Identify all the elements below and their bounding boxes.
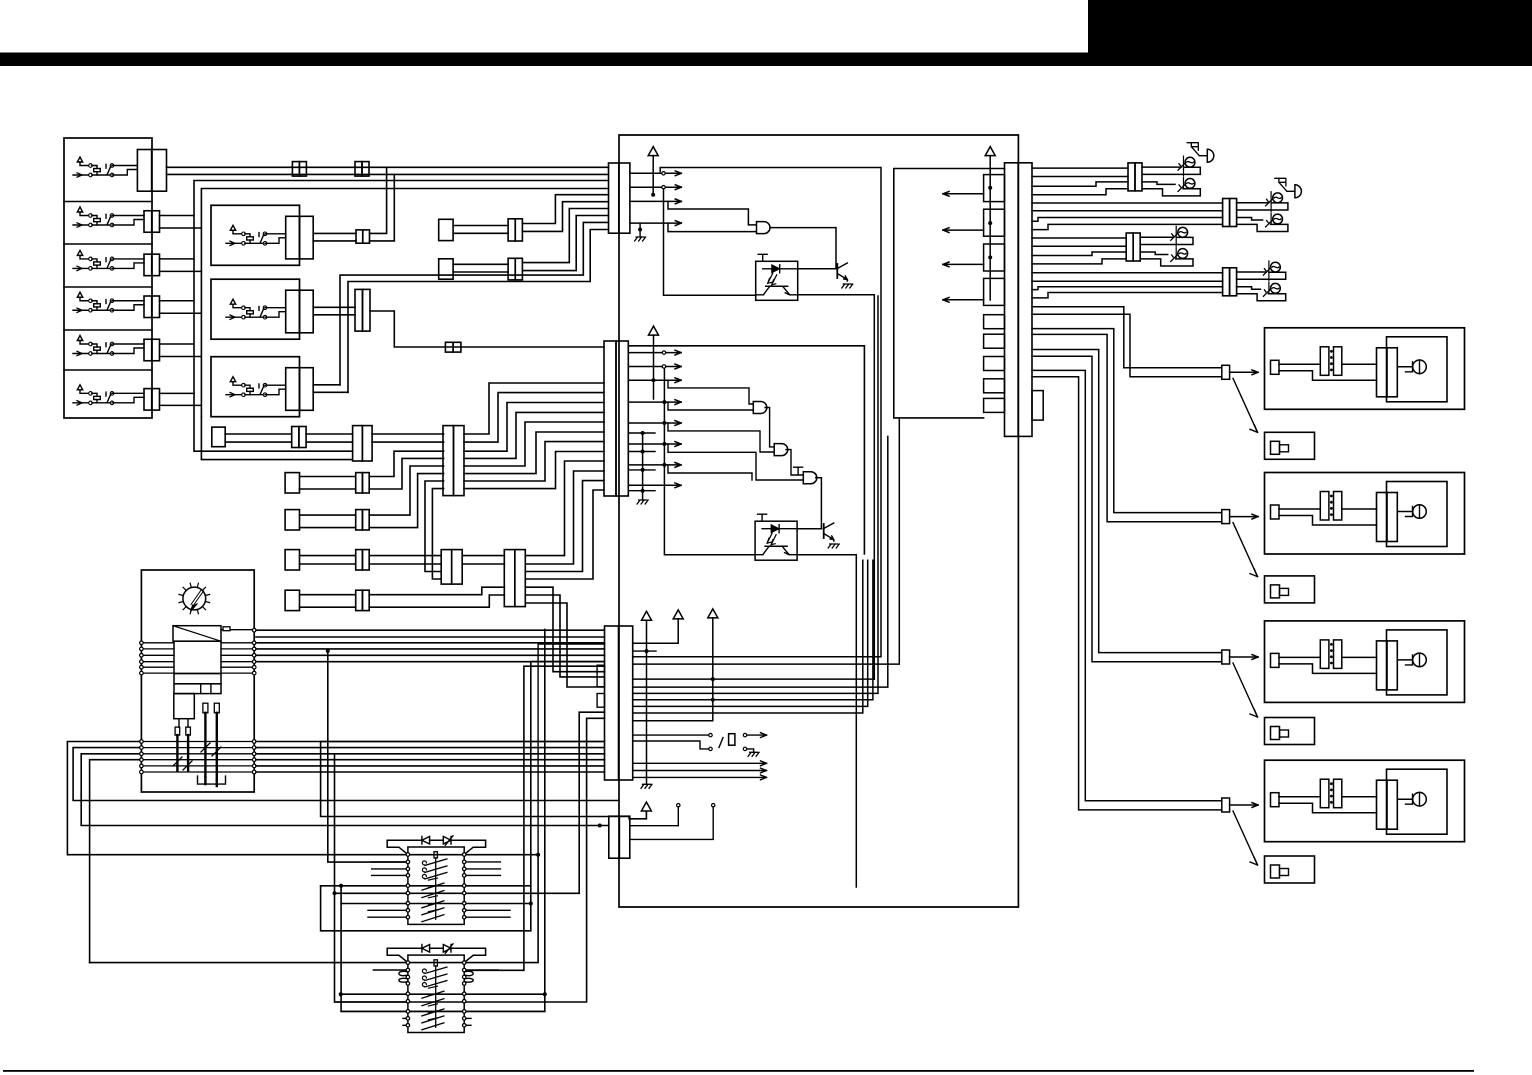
wires S2 to ECU1 [522,209,608,263]
power triangle T7 [985,147,995,156]
lamp L2b [1266,214,1283,227]
transistor Q2 [824,523,834,541]
wire M1 out [313,232,356,234]
actuator module M3 [1265,621,1465,703]
wire cell6 bottom [160,404,202,406]
ignition switch bank 2 [387,944,485,1033]
switch M3S [226,377,267,397]
wires RC to L3 [1032,237,1126,239]
collector bus vertical B [200,228,202,417]
stub SB [285,473,299,493]
lamp L3b [1171,249,1188,262]
wires SC [300,514,356,516]
relay box M3 [211,357,300,417]
ground G3 [641,784,652,788]
horn L2 [1275,178,1302,198]
connector S1J [508,219,515,241]
wire SW4 to J4 [112,300,144,302]
connector J2 [144,211,152,233]
section1 terminal circles [662,172,665,175]
bank2 row5 wire [341,993,545,995]
trunk pair to module2 [1032,329,1222,513]
generator body box [174,641,221,673]
far-left loop 3: gen row3 to connector5 [81,754,609,826]
stub SD [285,550,299,570]
wire cell4 bottom [160,312,202,314]
wire M1 to bus rows [370,167,387,233]
generator blade contacts [173,757,192,770]
gauge meter [179,583,210,614]
relay box M2 [211,279,300,339]
connector BC1 [443,426,454,496]
switch SW4 [73,292,114,312]
module1 feed connector [1222,365,1230,379]
A4 out to opto2 [816,478,822,529]
connector box B1 [1265,432,1315,459]
wire SW3 to J3 [112,258,144,260]
trunk pair to module1 [1032,307,1222,368]
ECU main box [619,135,1018,907]
ground below connector1 [639,223,641,237]
generator bottom bar [198,776,226,784]
ground G4 [748,752,759,756]
wire opto2 to transistor2 [797,528,821,530]
connector3 bottom arrows [633,762,767,764]
wire opto1 to transistor [798,268,836,270]
module4 diagonal arrow [1233,811,1258,865]
wire M2 internal [265,307,286,309]
module3 diagonal arrow [1233,663,1258,717]
bank1 row6 wire to connector3 [335,712,605,893]
wires SD [300,555,356,557]
generator lower terminals left [140,740,144,744]
connector3 left pin boxes [597,665,604,687]
switch SW5 [73,336,114,356]
wires SE [300,594,356,596]
wires SB to big connector [369,451,443,476]
stack divider 5 [64,369,152,371]
ground [842,284,853,288]
wires SC to big connector [369,466,443,515]
generator lower wires to connector3 [256,741,605,743]
connector J4 [144,296,152,318]
left switch stack box [64,138,152,418]
bank terminal circles restamp [406,853,409,856]
stack divider 3 [64,286,152,288]
power line T2 [653,335,655,399]
connector SDJ [356,550,363,570]
wires RC to L2 [1032,202,1223,204]
opto2 output down [797,555,856,887]
generator lower terminals right [252,740,256,744]
wire cell3 bottom [160,270,202,272]
resistor on regulator wire [221,629,223,631]
connector S2J [508,258,515,280]
relay wires [633,734,709,736]
wire SW6 to J6 [112,392,144,394]
trunk pair to module3 [1032,350,1222,653]
actuator module M2 [1265,473,1465,555]
opto1 output down [798,295,875,679]
connector2 right ground rows [628,432,655,434]
ground [828,544,839,548]
connector SCJ [356,510,363,530]
mesh vertical 327.8 to bank1 row2 [328,651,408,862]
section2 gate wires [668,380,753,404]
wire SW1 to J1 [112,165,137,167]
connector C1b [355,162,362,177]
bank1 row1 wire to connector3 row [538,644,604,855]
ECU connector1 [609,163,619,233]
inner box around right connector [894,169,1005,418]
connector L3J [1126,233,1133,261]
connector M1J [286,216,300,259]
wires S1 to ECU1 [522,195,608,224]
connector box B2 [1265,576,1315,603]
wire cell5 bottom [160,356,202,358]
module1 diagonal arrow [1233,378,1258,432]
section1 arrows [630,172,681,174]
wires SE step up [369,587,504,595]
ECU connector5 [609,816,620,858]
connector SA1 [292,427,299,448]
section1 vertical to opto [664,189,756,295]
ground G2 [637,500,648,504]
section2 arrows [628,352,681,354]
AND gate A4 [803,472,817,484]
generator upper terminals left [140,641,144,645]
wire cell4 top [160,300,195,302]
bank2 row7 long [341,1010,545,1012]
power triangle T2 [649,326,659,335]
ignition switch bank 1 [387,836,485,925]
wires RC to L4 [1032,272,1223,274]
connector box B4 [1265,856,1315,883]
lamp L1a [1178,157,1195,170]
connector J5 [144,339,152,361]
section2 last rows wires [668,465,752,480]
wire cell6 top [160,392,195,394]
switch SW6 [73,385,114,405]
AND A1 output to transistor [770,228,836,269]
power triangle T4 [673,610,683,619]
opto2 left return [664,368,755,555]
lamp L1b [1178,179,1195,192]
wire SW5 to J5 [112,343,144,345]
bank1 row7 wire [341,903,531,905]
connector J6 [144,389,152,411]
wire M3 up to ECU1 [340,222,609,384]
lamp L4a [1263,262,1280,275]
wires BC2 down to connector3 [525,587,604,672]
connector box B3 [1265,718,1315,745]
connector C1a [292,162,299,177]
RC pin boxes short [984,315,1005,329]
wires SB [300,476,356,478]
relay box M1 [211,205,300,265]
switch SW1 [73,157,114,177]
generator left sub-box [174,694,195,719]
stair wires BC2 to ECU connector2 [525,461,604,556]
right connector column RC [1005,163,1019,437]
ground G1 [635,237,646,241]
bank1 stub wires [372,861,408,863]
lamp L2a [1266,193,1283,206]
module3 feed connector [1222,650,1230,664]
module3 feed arrow [1230,656,1258,658]
actuator module M1 [1265,328,1465,410]
module4 feed connector [1222,798,1230,812]
generator interior row wires [143,642,174,644]
gate A4 T-stub [794,467,803,474]
connector3 right wire nest [633,168,881,657]
bank1 row5 loop [321,662,605,931]
wire M3 internal [265,384,286,386]
optocoupler OC1 [756,254,798,300]
section2 power line B dots [662,400,666,404]
generator right brushes [203,703,208,713]
module4 feed arrow [1230,804,1258,806]
generator left brushes [175,727,180,735]
black header block top-right [1088,0,1532,55]
connector J1 [137,150,151,192]
lamp L4b [1263,283,1280,296]
wire M2 out [313,306,355,308]
wires SA to big connector [372,433,444,435]
stack divider 4 [64,329,152,331]
RC right stub box [1032,391,1043,421]
connector L2J [1223,199,1230,227]
stack divider 1 [64,201,152,203]
mesh 523.9 connector3 row to bank2 row2 [464,666,605,970]
stack divider 2 [64,243,152,245]
mesh vertical 334.5 to bank2 row6 [335,754,408,1002]
connector SEJ [356,590,363,610]
bank2 stub wires [373,969,408,971]
connector C2 [356,230,363,243]
power triangle T6 [641,802,651,811]
module1 feed arrow [1230,371,1258,373]
black header bar [0,53,1532,67]
trunk pair to module4 [1032,370,1222,800]
far-left loop 4: gen row4 to bank2 row1 [90,760,140,963]
mesh vertical 341 bank rows [341,629,545,1011]
connector L4J [1223,268,1230,296]
wire cell2 bottom to bus row4 [160,189,609,229]
wire M3 out [313,384,340,386]
switch SW3 [73,250,114,270]
connector BC2 [504,550,515,607]
generator upper wires to connector3 [256,629,605,631]
connector L1J [1128,163,1135,191]
AND gate A2 [753,402,767,414]
generator upper terminals right [252,628,256,632]
module2 feed arrow [1230,516,1258,518]
ECU connector3 [605,626,619,780]
wires SA cont [306,433,353,435]
power line T5 [633,618,713,721]
actuator module M4 [1265,760,1465,842]
stub S1 [439,219,453,240]
wire cell5 top [160,343,195,345]
connector3 right row stub [633,650,656,652]
stub SE [285,590,299,610]
ECU section2 inner box [628,346,864,554]
AND gate A3 [774,444,788,456]
wire W1 top [167,166,609,168]
connector SA2 tall [353,426,363,461]
far-left loop 2: gen row2 to ECU edge [73,748,619,801]
wire W2 [167,173,609,175]
lamp L3a [1171,227,1188,240]
RC arrows left [943,193,984,195]
relay RL1 [709,733,747,750]
far-left loop 1: gen row1 to bank1 row1 [67,742,538,963]
stub SA [212,427,225,447]
connector M3J [286,368,300,411]
connector5 terminals [677,804,680,807]
switch M2S [226,299,267,319]
stub SC [285,510,299,530]
switch M1S [226,225,267,245]
generator box [141,570,254,792]
collector bus vertical A [193,216,195,394]
connector SD2 tall [441,550,452,585]
connector C4 [445,342,453,352]
connector SBJ [356,473,363,493]
power line T3 down [646,620,648,784]
wire cell3 top [160,258,195,260]
bus B exit to stair [201,417,352,460]
module2 diagonal arrow [1233,523,1258,577]
connector J3 [144,254,152,276]
wires BC1 to SD tall connector [425,481,444,572]
power line T1 [652,156,654,195]
power triangle T1 [648,147,658,156]
section2 terminal circles [662,351,665,354]
regulator box with diagonal [173,626,221,642]
stub S2 [439,259,453,279]
wire M1 internal [265,233,286,235]
AND gate A1 [757,222,771,234]
connector C3 [355,289,363,331]
stair wires BC1 to ECU connector2 [464,383,604,434]
power triangle T3 [642,611,652,620]
mesh vertical 320.6 connector4 to T6 line [321,742,647,819]
RC pin boxes tall [984,175,1005,202]
wires RC to L1 [1032,167,1128,169]
wires S1 [453,225,508,227]
wire M2 route down [370,311,604,347]
bus A exit to stair [194,394,353,452]
transistor Q1 [837,263,847,281]
wire SW2 to J2 [112,215,144,217]
power triangle T5 [708,609,718,618]
horn L1 [1187,143,1214,163]
wires S2 [453,263,508,265]
wire cell2 top to bus row3 [160,181,609,216]
wires SA [225,433,292,435]
switch SW2 [73,207,114,227]
power line T4 [633,619,679,643]
ECU connector2 [604,341,616,496]
bank2 row6 wire to connector3 [335,718,604,1002]
section1 AND wires [668,201,757,225]
bottom rule line [3,1070,1474,1072]
optocoupler OC2 [755,514,797,560]
connector M2J [286,290,300,333]
RC power line [989,156,991,300]
module2 feed connector [1222,510,1230,524]
